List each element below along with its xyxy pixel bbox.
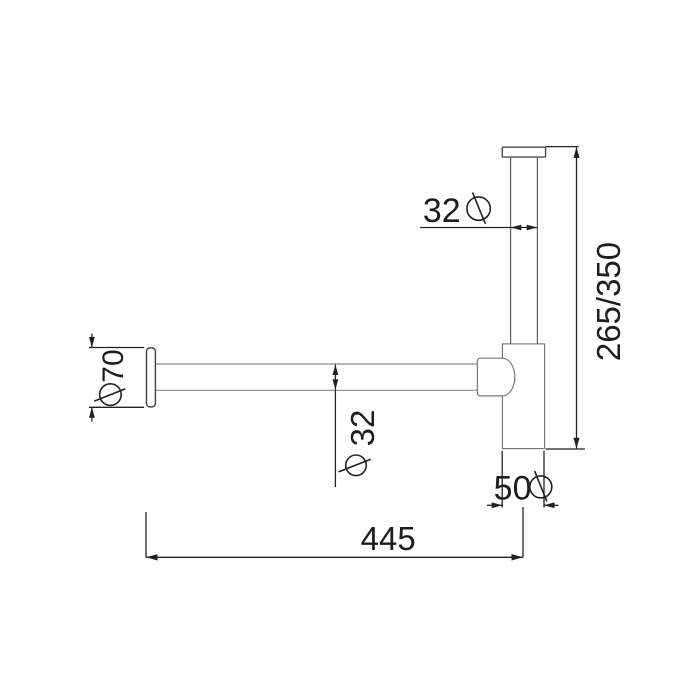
compression nut / elbow — [477, 358, 514, 396]
label 50 Ø — [494, 469, 552, 507]
wall flange — [147, 348, 156, 407]
top cap flange — [502, 147, 545, 157]
dimension 265/350 extension lines — [546, 147, 586, 449]
dimension 445 arrows — [146, 554, 523, 560]
dimension Ø32 mid arrows — [333, 365, 339, 390]
svg-text:70: 70 — [97, 349, 130, 382]
svg-text:50: 50 — [494, 469, 532, 507]
dimension 32 top leader — [420, 227, 537, 229]
dimension Ø32 mid leader — [334, 365, 336, 488]
label Ø70 — [94, 349, 130, 405]
label Ø 32 mid — [339, 410, 381, 476]
trap body — [502, 344, 544, 449]
dimension 265/350 arrows — [573, 147, 579, 448]
svg-text:445: 445 — [361, 520, 416, 557]
dimension Ø70 extension lines — [89, 334, 144, 422]
dimension 50 extension lines — [487, 451, 559, 508]
dimension 32 top arrows — [511, 225, 537, 231]
dimension 50 arrows — [492, 502, 555, 508]
svg-text:265/350: 265/350 — [590, 242, 627, 361]
dimension Ø70 arrows — [89, 337, 95, 418]
label 265/350 — [590, 242, 627, 361]
horizontal wall tube — [155, 364, 477, 390]
label 32 Ø top — [423, 192, 490, 230]
label 445 — [361, 520, 416, 557]
vertical inlet tube — [511, 157, 538, 344]
dimension 445 extension lines — [146, 507, 523, 557]
svg-text:32: 32 — [344, 410, 381, 447]
svg-text:32: 32 — [423, 192, 461, 230]
